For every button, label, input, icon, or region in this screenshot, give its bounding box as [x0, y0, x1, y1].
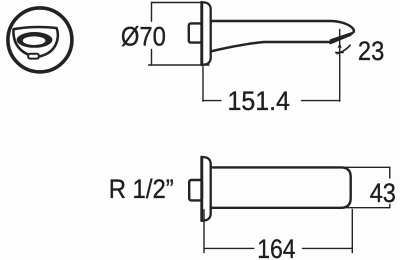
top view body outline — [211, 167, 351, 207]
dim 164 left extension line — [203, 210, 205, 253]
side view flange capsule — [202, 2, 211, 64]
svg-text:Ø70: Ø70 — [121, 21, 166, 51]
svg-text:43: 43 — [370, 178, 396, 208]
dim 43 top extension line — [345, 166, 390, 168]
dim 23 angle arc — [337, 45, 350, 53]
dim Ø70 bottom extension line — [149, 64, 209, 66]
icon bottom notch — [28, 54, 39, 59]
svg-text:151.4: 151.4 — [228, 86, 290, 116]
dim Ø70 top extension line — [152, 2, 206, 4]
dim 164 line right segment — [303, 247, 353, 249]
icon outlet ring — [17, 32, 53, 48]
spout top edge — [211, 21, 354, 40]
dim 43 bottom extension line — [345, 207, 390, 209]
spout lip outer line — [330, 35, 350, 43]
side view wall stub — [189, 23, 202, 42]
dim 164 line left segment — [204, 247, 254, 249]
side view flange wall edge — [200, 2, 203, 65]
dim 23 horizontal tick — [336, 52, 344, 54]
top view wall stub — [189, 180, 202, 200]
dim 151.4 line right segment — [302, 100, 340, 102]
svg-text:R 1/2”: R 1/2” — [109, 174, 174, 204]
top view flange capsule — [202, 157, 211, 220]
dim Ø70 vertical line lower segment — [151, 50, 153, 66]
dim 43 vertical line lower segment — [389, 205, 391, 208]
dim 23 arrowhead up — [338, 42, 342, 47]
dim 23 vertical reference line — [339, 30, 341, 102]
dim 151.4 left extension line — [202, 67, 204, 102]
dim 164 right extension line — [351, 210, 353, 253]
icon bowl outline — [13, 27, 57, 57]
icon outer circle — [8, 8, 72, 72]
top view flange wall edge — [200, 157, 203, 221]
dim Ø70 vertical line upper segment — [151, 3, 153, 22]
spout bottom edge — [211, 42, 334, 51]
svg-text:23: 23 — [358, 36, 384, 66]
dim 43 vertical line upper segment — [389, 167, 391, 178]
svg-text:164: 164 — [257, 234, 295, 260]
dim 151.4 line left segment — [203, 100, 221, 102]
